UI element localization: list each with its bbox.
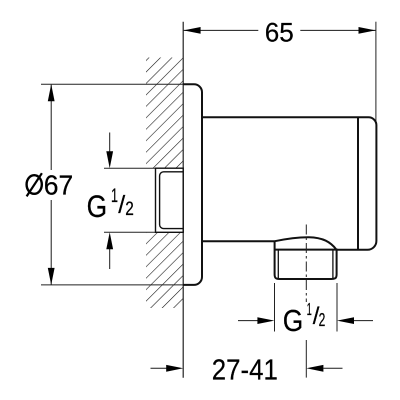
extension line right (65) bbox=[375, 22, 377, 123]
outlet nipple bbox=[275, 241, 337, 279]
svg-text:1: 1 bbox=[111, 186, 118, 207]
svg-text:2: 2 bbox=[319, 310, 326, 330]
wall hatching upper bbox=[146, 58, 183, 169]
svg-text:G: G bbox=[283, 304, 304, 338]
dimension G1/2 left arrows bbox=[109, 133, 111, 153]
extension line bottom (Ø67) bbox=[41, 284, 183, 286]
body outline bbox=[202, 117, 376, 250]
svg-text:G: G bbox=[87, 188, 108, 224]
dimension Ø67 bbox=[50, 85, 52, 285]
flange (escutcheon) outline bbox=[183, 84, 202, 285]
bottom G1/2 dimension bbox=[238, 320, 258, 322]
svg-text:27-41: 27-41 bbox=[212, 354, 278, 386]
svg-text:/: / bbox=[118, 191, 125, 219]
svg-text:2: 2 bbox=[125, 199, 134, 220]
svg-text:67: 67 bbox=[44, 170, 74, 201]
extension lines G1/2 left bbox=[104, 167, 156, 169]
left thread (wall connection) bbox=[156, 168, 184, 232]
dimension 27-41 bbox=[151, 367, 168, 369]
wall face line bbox=[182, 22, 184, 378]
svg-text:65: 65 bbox=[265, 18, 294, 48]
svg-text:1: 1 bbox=[307, 299, 312, 319]
dimension 65 bbox=[184, 29, 376, 31]
extension line top (Ø67) bbox=[41, 83, 183, 85]
centerline (dash-dot) bbox=[305, 225, 307, 303]
inner step line right bbox=[357, 117, 359, 250]
bottom G1/2 extension lines bbox=[274, 283, 276, 332]
wall hatching lower bbox=[146, 232, 183, 308]
